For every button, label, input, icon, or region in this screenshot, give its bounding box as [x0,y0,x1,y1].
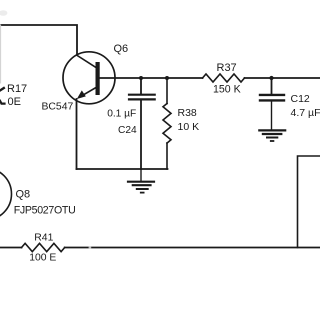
svg-text:0.1 µF: 0.1 µF [107,108,136,119]
svg-text:100 E: 100 E [29,253,56,264]
svg-text:0E: 0E [8,96,21,108]
svg-text:FJP5027OTU: FJP5027OTU [14,204,76,216]
svg-text:R41: R41 [34,233,53,244]
svg-text:10 K: 10 K [178,121,200,133]
svg-text:R17: R17 [7,83,27,95]
svg-text:150 K: 150 K [213,83,241,95]
svg-text:BC547: BC547 [42,102,74,113]
svg-text:4.7 µF: 4.7 µF [291,107,320,119]
svg-text:R37: R37 [217,62,237,74]
svg-text:C12: C12 [291,93,310,105]
svg-text:Q6: Q6 [114,43,129,55]
svg-text:R38: R38 [178,107,197,119]
svg-text:C24: C24 [118,125,137,136]
svg-text:Q8: Q8 [16,188,31,200]
